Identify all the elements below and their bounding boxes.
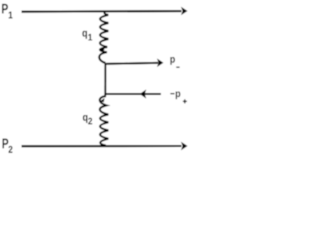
label p- — [170, 57, 174, 65]
label -p+ minus — [170, 93, 174, 95]
proton line P1 (top) — [22, 10, 182, 13]
arrowhead on P2 line — [181, 142, 188, 150]
label P1 — [2, 4, 8, 14]
photon propagator q2 (wavy) — [100, 95, 109, 146]
electron internal line (vertical) — [104, 63, 106, 95]
label q2 — [83, 115, 88, 123]
positron line -p+ (in, arrow left, mid-line) — [105, 93, 161, 95]
label P2 — [2, 139, 8, 149]
label -p+ p — [176, 91, 180, 99]
photon propagator q1 (wavy) — [99, 12, 108, 63]
arrowhead on P1 line — [181, 7, 188, 15]
label q1 — [82, 31, 87, 39]
arrowhead -p+ — [140, 90, 147, 99]
arrowhead on q2 — [99, 98, 104, 102]
electron line p- (out, arrow right) — [105, 63, 159, 64]
label -p+ plus — [183, 99, 187, 103]
arrowhead p- — [157, 59, 163, 67]
proton line P2 (bottom) — [22, 145, 182, 147]
arrowhead on q1 — [100, 47, 105, 51]
